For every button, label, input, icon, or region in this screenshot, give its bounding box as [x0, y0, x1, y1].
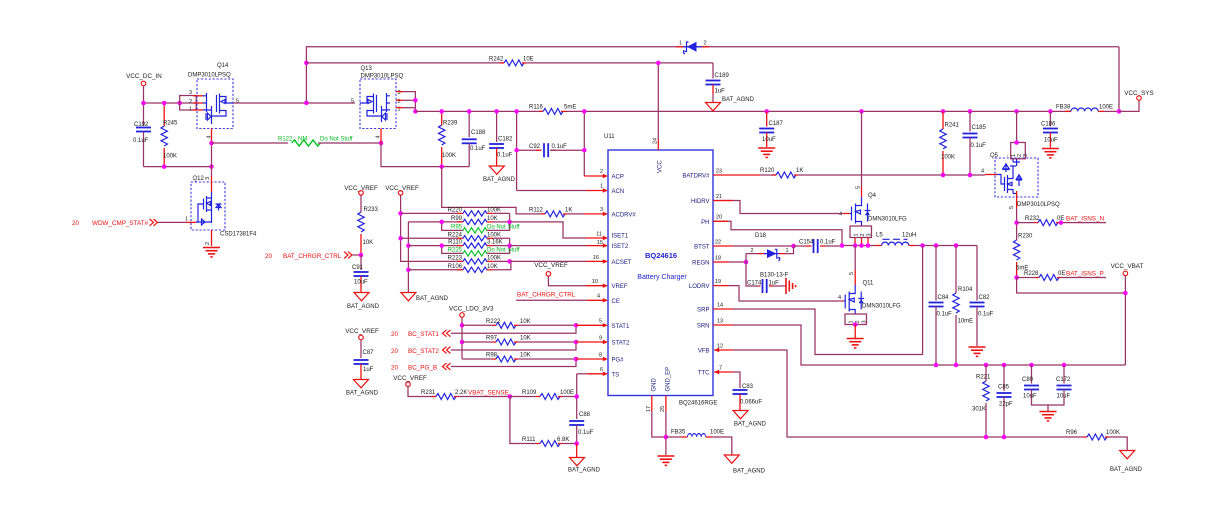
capacitor C91 [352, 255, 369, 293]
ground BAT_AGND C182 [483, 166, 516, 183]
svg-text:17: 17 [646, 406, 652, 412]
svg-text:ACP: ACP [612, 175, 624, 181]
svg-text:0.1uF: 0.1uF [937, 312, 953, 318]
wire ISET2 route [510, 245, 586, 247]
svg-text:CSD17381F4: CSD17381F4 [220, 232, 257, 238]
svg-text:0.1uF: 0.1uF [971, 143, 987, 149]
wire switch node PH/L5 [842, 245, 875, 247]
svg-text:1: 1 [679, 41, 682, 47]
svg-text:22pF: 22pF [999, 402, 1013, 408]
svg-text:Battery Charger: Battery Charger [637, 274, 687, 281]
svg-text:4: 4 [207, 135, 213, 138]
power symbol VCC_VREF d [393, 375, 436, 397]
junction dots C192 line [162, 164, 167, 169]
svg-text:C92: C92 [529, 144, 541, 150]
svg-text:R222: R222 [486, 319, 501, 325]
svg-text:2: 2 [600, 169, 603, 175]
wire VBAT link [1017, 278, 1126, 294]
svg-text:BAT_CHRGR_CTRL: BAT_CHRGR_CTRL [517, 292, 576, 299]
svg-text:R241: R241 [945, 123, 960, 129]
svg-text:100K: 100K [442, 153, 456, 159]
power symbol VCC_LDO_3V3 [449, 306, 494, 360]
resistor R99 [408, 216, 509, 225]
capacitor C187 [759, 109, 783, 147]
Q5 drain bracket top [1005, 143, 1029, 159]
wire VCC_DC_IN rail y=103 [144, 102, 198, 104]
svg-text:10uF: 10uF [1044, 138, 1058, 144]
svg-text:2: 2 [860, 233, 866, 236]
svg-text:20: 20 [716, 215, 722, 221]
wire top loop corner [1118, 47, 1120, 112]
ground PGND pins [657, 456, 674, 465]
resistor R221 [972, 365, 991, 439]
transistor Q12 CSD17381F4 [191, 176, 257, 246]
svg-text:Do Not Stuff: Do Not Stuff [487, 225, 520, 231]
power symbol VCC_VREF a [344, 185, 378, 212]
capacitor C87 [354, 350, 375, 380]
svg-text:20: 20 [391, 365, 399, 372]
svg-text:2: 2 [704, 41, 707, 47]
junction dots VBAT line [984, 363, 989, 368]
svg-text:R122: R122 [278, 137, 293, 143]
svg-text:VCC: VCC [658, 160, 664, 173]
pin VREF stub [586, 284, 608, 288]
svg-text:BAT_AGND: BAT_AGND [568, 468, 601, 474]
pin PH wire to switch node [713, 221, 842, 245]
svg-text:NM: NM [298, 137, 307, 143]
svg-text:BAT_ISNS_P: BAT_ISNS_P [1066, 270, 1104, 277]
svg-text:100K: 100K [487, 256, 501, 262]
wire Q14 drain node [211, 143, 213, 176]
wire rail y=111.4 right part [566, 110, 1071, 112]
resistor R233 [358, 207, 379, 255]
svg-text:ISET2: ISET2 [612, 244, 629, 250]
svg-text:VCC_VREF: VCC_VREF [534, 262, 568, 269]
off-page connector BC_PG_B [391, 359, 576, 372]
svg-text:6: 6 [600, 367, 603, 373]
svg-text:4: 4 [597, 294, 600, 300]
off-page connector BC_STAT1 [391, 325, 576, 338]
svg-text:R109: R109 [522, 390, 537, 396]
wire ISET1 route [510, 222, 586, 238]
junction dots rail [141, 101, 146, 106]
svg-text:C192: C192 [134, 122, 149, 128]
pin STAT1 stub [574, 323, 608, 328]
Q13 source bracket [396, 92, 418, 114]
bus VCC_VREF b to stack [401, 213, 463, 261]
svg-text:0.1uF: 0.1uF [497, 153, 513, 159]
pin names left [612, 175, 637, 379]
wire ACSET route [510, 260, 586, 262]
svg-text:1: 1 [189, 107, 192, 113]
node VCC_DC_IN rail riser x=306.4 [306, 47, 1119, 103]
svg-text:REGN: REGN [692, 261, 709, 267]
svg-text:1: 1 [185, 217, 188, 223]
pin 4 stub Q14 drain [207, 129, 213, 144]
svg-text:C174: C174 [747, 281, 762, 287]
svg-text:0.1uF: 0.1uF [978, 312, 994, 318]
ground BAT_AGND C91 [347, 293, 380, 311]
capacitor C185 [963, 109, 987, 177]
svg-text:C83: C83 [742, 384, 754, 390]
svg-text:C188: C188 [471, 130, 486, 136]
svg-text:1uF: 1uF [363, 367, 374, 373]
svg-text:C91: C91 [352, 265, 364, 271]
svg-text:4: 4 [981, 169, 984, 175]
ground PGND Q11 [847, 339, 864, 348]
ground BAT_AGND C189 [706, 97, 755, 111]
resistor R112 [529, 208, 584, 217]
svg-text:BAT_AGND: BAT_AGND [733, 469, 766, 475]
svg-text:R239: R239 [443, 121, 458, 127]
wire Q14 pin5 to Q13 [233, 102, 355, 104]
svg-text:100E: 100E [1099, 105, 1113, 111]
resistor R96 [1066, 430, 1127, 451]
svg-text:1: 1 [600, 184, 603, 190]
pin SRP wire loop [713, 246, 923, 355]
transistor Q11 DMN3010LFG [838, 270, 901, 314]
svg-text:C88: C88 [579, 412, 591, 418]
wire Q11 drain riser [854, 246, 856, 271]
svg-text:GND: GND [651, 378, 657, 392]
capacitor C192 [133, 103, 151, 167]
svg-text:10mE: 10mE [958, 319, 974, 325]
svg-text:PG#: PG# [612, 358, 625, 364]
svg-text:C87: C87 [363, 350, 375, 356]
pin VFB wire [714, 348, 1083, 437]
svg-text:TS: TS [612, 372, 620, 378]
svg-text:VREF: VREF [612, 284, 628, 290]
ground BAT_AGND R96 [1110, 451, 1143, 474]
svg-text:C80: C80 [1022, 377, 1034, 383]
svg-text:BAT_ISNS_N: BAT_ISNS_N [1066, 216, 1104, 223]
capacitor C186 [1041, 109, 1058, 147]
svg-text:R233: R233 [364, 207, 379, 213]
pin BTST stub [713, 244, 796, 249]
svg-text:R220: R220 [448, 208, 463, 214]
resistor R231 [421, 390, 510, 400]
svg-text:DMP3010LPSQ: DMP3010LPSQ [361, 74, 404, 80]
svg-text:10K: 10K [487, 264, 498, 270]
svg-text:5: 5 [599, 319, 602, 325]
resistor R239 [439, 111, 459, 166]
svg-text:25: 25 [660, 406, 666, 412]
svg-text:BC_PG_B: BC_PG_B [408, 365, 437, 372]
pin numbers left [592, 169, 603, 373]
wire Q13 drain to ACDRV node [381, 143, 469, 167]
svg-text:WDW_CMP_STAT#: WDW_CMP_STAT# [92, 220, 149, 227]
svg-text:5mE: 5mE [564, 105, 576, 111]
resistor R225 (Do Not Stuff) [439, 238, 519, 256]
svg-text:VBAT_SENSE: VBAT_SENSE [468, 390, 509, 397]
resistor R95 (Do Not Stuff) [439, 213, 519, 233]
svg-text:R112: R112 [529, 208, 544, 214]
svg-text:Q13: Q13 [361, 66, 373, 72]
svg-text:10K: 10K [520, 336, 531, 342]
pin ISET2 stub [586, 243, 608, 247]
svg-text:0.1uF: 0.1uF [133, 138, 149, 144]
svg-text:3: 3 [862, 320, 868, 323]
svg-text:C172: C172 [1056, 377, 1071, 383]
svg-text:100K: 100K [163, 154, 177, 160]
net label BAT_CHRGR_CTRL at CE [516, 292, 587, 301]
Q11 source bracket [845, 314, 868, 338]
svg-text:10K: 10K [487, 216, 498, 222]
svg-text:D18: D18 [755, 233, 767, 239]
svg-text:0.1uF: 0.1uF [578, 430, 594, 436]
svg-text:2: 2 [751, 248, 754, 254]
svg-text:GND_EP: GND_EP [665, 367, 671, 392]
capacitor C188 [462, 111, 486, 166]
svg-text:11: 11 [596, 231, 602, 237]
transistor Q5 DMP3010LPSQ [981, 153, 1060, 209]
svg-text:20: 20 [391, 331, 399, 338]
svg-text:R110: R110 [448, 240, 463, 246]
wire TS node vertical [576, 374, 578, 419]
svg-text:B130-13-F: B130-13-F [760, 273, 789, 279]
svg-text:R116: R116 [529, 105, 544, 111]
svg-text:Q11: Q11 [863, 281, 875, 287]
svg-text:BC_STAT1: BC_STAT1 [408, 331, 439, 338]
ground PGND C187 [758, 148, 775, 157]
inductor L5 [875, 233, 977, 246]
svg-text:BQ24616RGE: BQ24616RGE [679, 401, 717, 407]
svg-text:1: 1 [854, 233, 860, 236]
svg-text:10K: 10K [363, 240, 374, 246]
diode D18 B130-13-F [746, 233, 794, 279]
svg-text:10K: 10K [520, 319, 531, 325]
resistor R106 [408, 261, 511, 272]
svg-text:10uF: 10uF [1057, 394, 1071, 400]
svg-text:CE: CE [612, 299, 620, 305]
capacitor C154 [794, 239, 843, 253]
svg-text:R224: R224 [448, 232, 463, 238]
svg-text:DMN3010LFG: DMN3010LFG [862, 304, 901, 310]
IC U11 BQ24616 body [604, 134, 713, 396]
svg-text:C85: C85 [998, 385, 1010, 391]
pin HIDRV wire to Q4 gate [713, 201, 843, 214]
transistor Q13 DMP3010LPSQ [351, 66, 404, 129]
svg-text:0.1uF: 0.1uF [470, 146, 486, 152]
pin 4 stub Q13 drain [376, 129, 382, 144]
wire rail to Q5 [1014, 109, 1019, 145]
pin TTC wire [714, 370, 740, 388]
svg-text:3: 3 [189, 90, 192, 96]
svg-text:R99: R99 [451, 216, 463, 222]
svg-text:C154: C154 [799, 240, 814, 246]
diode D17 top [676, 41, 709, 55]
ground PGND C82 [969, 347, 986, 356]
svg-text:R221: R221 [976, 375, 991, 381]
svg-text:10uF: 10uF [762, 137, 776, 143]
resistor R241 [940, 109, 960, 177]
ground BAT_AGND stack [401, 293, 449, 303]
svg-text:R97: R97 [486, 336, 498, 342]
resistor R224 [401, 232, 510, 241]
svg-text:ISET1: ISET1 [612, 234, 629, 240]
svg-text:Q5: Q5 [990, 153, 999, 159]
svg-text:10uF: 10uF [354, 280, 368, 286]
pin ACP stub [584, 174, 608, 178]
capacitor C80 [1022, 365, 1048, 405]
svg-text:R96: R96 [1066, 430, 1078, 436]
pin PG# stub [574, 357, 608, 362]
off-page connector BAT_CHRGR_CTRL [265, 252, 363, 260]
svg-text:VCC_DC_IN: VCC_DC_IN [126, 73, 162, 80]
svg-text:R98: R98 [486, 353, 498, 359]
svg-text:R245: R245 [163, 121, 178, 127]
svg-text:R223: R223 [448, 256, 463, 262]
svg-text:DMP3010LPSQ: DMP3010LPSQ [1017, 202, 1060, 208]
resistor R232 [1017, 216, 1106, 226]
svg-text:23: 23 [716, 168, 722, 174]
svg-text:BAT_AGND: BAT_AGND [1110, 467, 1143, 473]
capacitor C174 [747, 279, 786, 293]
power symbol VCC_VBAT [1111, 263, 1144, 365]
svg-text:5: 5 [1009, 206, 1015, 209]
svg-text:Q14: Q14 [217, 63, 229, 69]
resistor R116 [529, 105, 576, 115]
svg-text:22: 22 [715, 239, 721, 245]
svg-text:ACN: ACN [612, 189, 625, 195]
pin CE stub [587, 298, 608, 302]
Q14 source bracket [180, 90, 203, 112]
resistor R109 [510, 390, 577, 400]
Q4 source bracket [850, 226, 873, 246]
resistor R220 [401, 208, 510, 217]
ground BAT_AGND C87 [346, 380, 379, 397]
svg-text:10K: 10K [520, 353, 531, 359]
svg-text:PH: PH [701, 220, 709, 226]
svg-text:BAT_CHRGR_CTRL: BAT_CHRGR_CTRL [283, 253, 342, 260]
svg-text:0E: 0E [1058, 271, 1065, 277]
svg-text:16: 16 [593, 255, 599, 261]
ground PGND C80/C172 [1040, 412, 1057, 421]
pin GND_EP 25 [660, 367, 671, 455]
power symbol VCC_DC_IN [126, 73, 162, 103]
svg-text:VFB: VFB [698, 349, 710, 355]
svg-text:100K: 100K [487, 208, 501, 214]
svg-text:3: 3 [205, 177, 211, 180]
svg-text:5: 5 [351, 99, 354, 105]
wire ACDRV# routing [442, 167, 545, 214]
svg-text:VCC_VREF: VCC_VREF [345, 328, 379, 335]
svg-text:STAT1: STAT1 [612, 324, 630, 330]
resistor R223 [448, 256, 510, 265]
svg-text:19: 19 [715, 279, 721, 285]
svg-text:7: 7 [719, 365, 722, 371]
power symbol VCC_VREF c [345, 328, 379, 358]
capacitor C172 [1048, 365, 1072, 411]
svg-text:FB38: FB38 [1056, 105, 1071, 111]
ground sideways C174 [786, 278, 796, 294]
svg-text:R120: R120 [760, 168, 775, 174]
capacitor C82 [970, 246, 994, 347]
wire C192/R245 bottom [144, 166, 212, 168]
svg-text:3: 3 [867, 233, 873, 236]
svg-text:10uF: 10uF [1023, 394, 1037, 400]
resistor R122 (Do Not Stuff) [212, 137, 382, 147]
svg-text:3: 3 [1023, 154, 1029, 157]
svg-text:BAT_AGND: BAT_AGND [483, 177, 516, 183]
svg-text:3.16K: 3.16K [487, 240, 503, 246]
svg-text:15: 15 [597, 240, 603, 246]
svg-text:9: 9 [599, 335, 602, 341]
svg-text:R242: R242 [489, 57, 504, 63]
svg-text:C84: C84 [938, 295, 950, 301]
svg-text:FB35: FB35 [671, 430, 686, 436]
svg-text:1uF: 1uF [715, 89, 726, 95]
transistor Q4 DMN3010LFG [839, 193, 907, 226]
svg-text:12uH: 12uH [902, 233, 916, 239]
off-page connector BC_STAT2 [391, 342, 576, 355]
svg-text:20: 20 [72, 220, 80, 227]
svg-text:R225: R225 [448, 248, 463, 254]
svg-text:BATDRV#: BATDRV# [682, 174, 710, 180]
pin VCC 24 [653, 61, 661, 150]
svg-text:ACDRV#: ACDRV# [612, 212, 637, 218]
capacitor C182 [489, 111, 513, 166]
svg-text:301K: 301K [972, 407, 986, 413]
wire main rail y=111.4 [415, 110, 543, 112]
svg-text:0.1uF: 0.1uF [552, 144, 568, 150]
resistor R230 [1013, 234, 1033, 278]
pin SRN wire [713, 325, 1125, 365]
wire Q5 source node [1014, 208, 1019, 240]
svg-text:0E: 0E [1057, 216, 1064, 222]
svg-text:0.1uF: 0.1uF [820, 240, 836, 246]
resistor R98 [462, 353, 576, 363]
capacitor C84 [929, 243, 953, 367]
svg-text:BAT_AGND: BAT_AGND [416, 296, 449, 302]
ground Q12 PGND [203, 248, 220, 257]
svg-text:4: 4 [839, 212, 842, 218]
svg-text:20: 20 [265, 253, 273, 260]
capacitor C88 [569, 412, 593, 444]
svg-text:R95: R95 [451, 225, 463, 231]
svg-text:100E: 100E [710, 430, 724, 436]
svg-text:Q12: Q12 [193, 176, 205, 182]
svg-text:R232: R232 [1025, 216, 1040, 222]
svg-text:R104: R104 [958, 287, 973, 293]
ground BAT_AGND C88 [568, 444, 601, 474]
svg-text:VCC_VREF: VCC_VREF [393, 375, 427, 382]
resistor R110 [408, 240, 509, 249]
svg-text:1: 1 [786, 248, 789, 254]
svg-text:VCC_VBAT: VCC_VBAT [1111, 263, 1144, 270]
svg-text:C186: C186 [1041, 122, 1056, 128]
svg-text:BAT_AGND: BAT_AGND [347, 304, 380, 310]
svg-text:24: 24 [653, 138, 659, 144]
svg-text:13: 13 [717, 318, 723, 324]
resistor R104 [953, 243, 973, 367]
bus AGND stack [407, 222, 409, 293]
svg-text:2: 2 [205, 242, 211, 245]
svg-text:100E: 100E [560, 390, 574, 396]
power symbol VCC_VREF b [385, 185, 419, 213]
svg-text:4: 4 [376, 135, 382, 138]
svg-text:STAT2: STAT2 [612, 341, 630, 347]
junction dots C92 row [439, 109, 444, 114]
svg-text:6.8K: 6.8K [557, 437, 569, 443]
svg-text:ACSET: ACSET [612, 260, 632, 266]
svg-text:1K: 1K [565, 208, 572, 214]
svg-text:100K: 100K [487, 232, 501, 238]
svg-text:LODRV: LODRV [689, 284, 710, 290]
svg-text:BC_STAT2: BC_STAT2 [408, 348, 439, 355]
power symbol VCC_VREF at VREF pin [534, 262, 586, 286]
resistor R228 [1017, 271, 1106, 281]
